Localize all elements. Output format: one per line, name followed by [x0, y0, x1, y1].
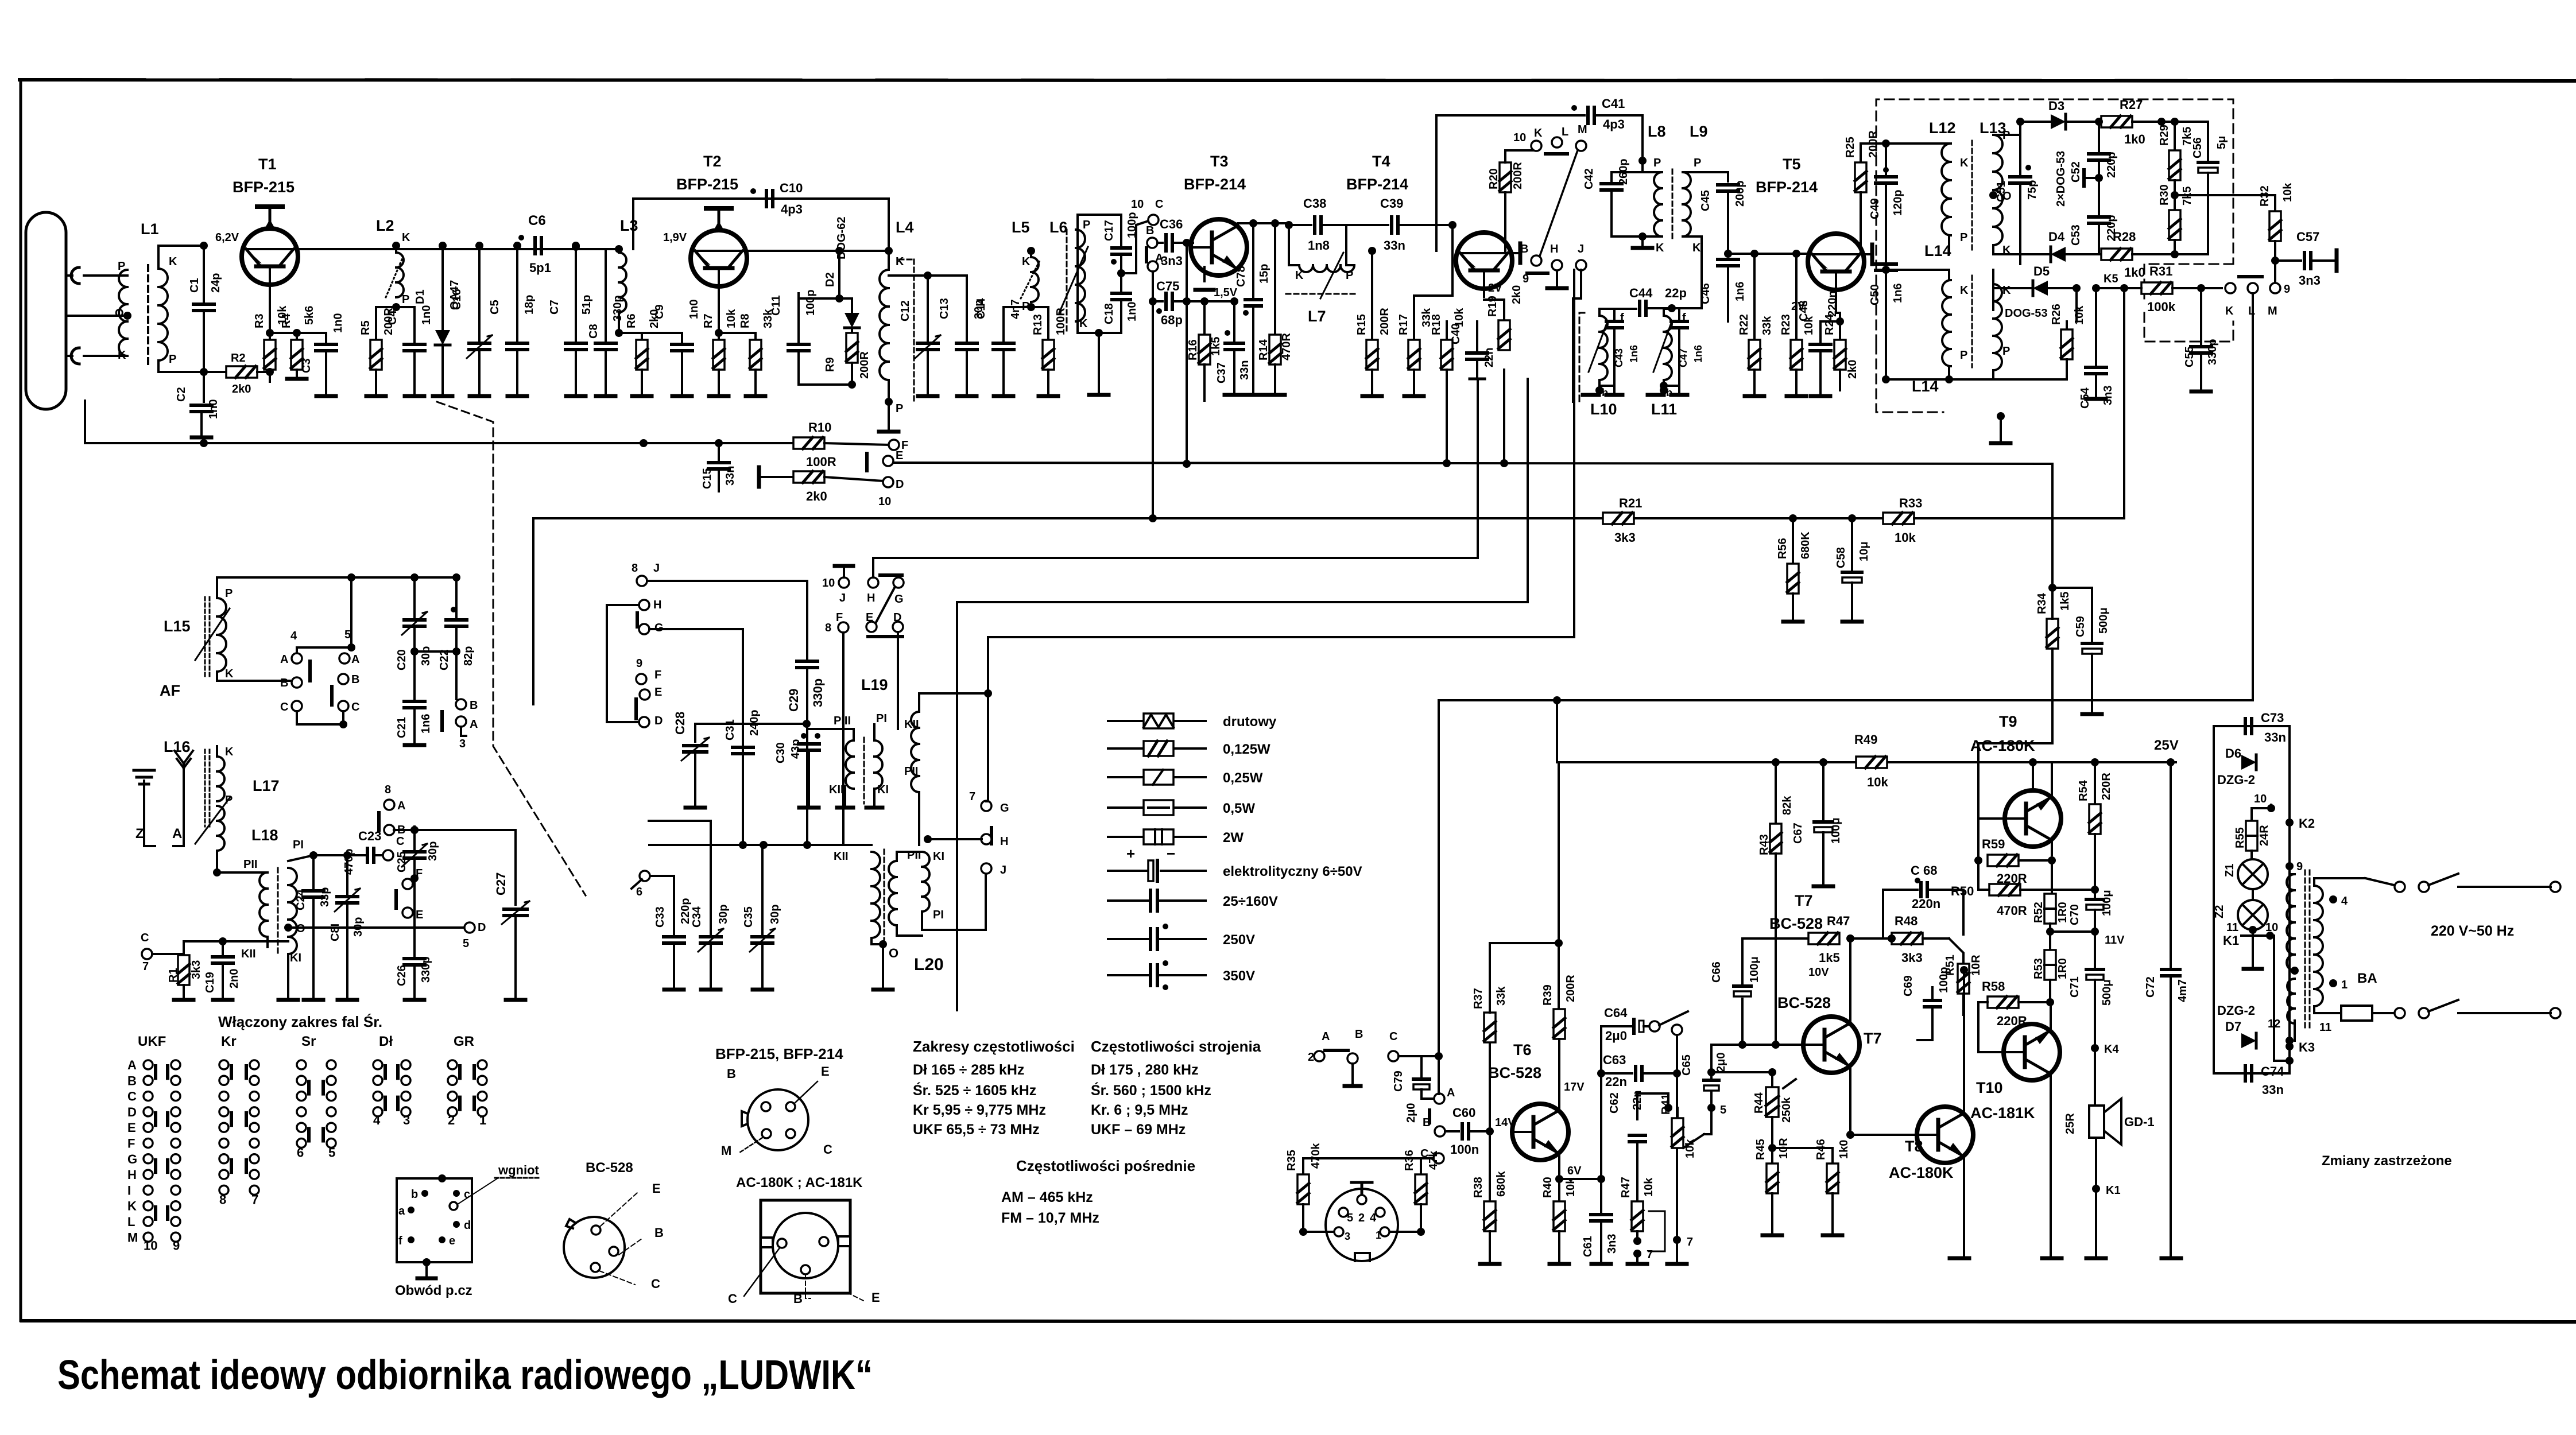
- resistor R1: [141, 932, 288, 1000]
- svg-text:Śr. 560 ; 1500 kHz: Śr. 560 ; 1500 kHz: [1091, 1081, 1211, 1099]
- capacitor C20 trimmer: [396, 577, 432, 670]
- svg-text:R29: R29: [2158, 125, 2171, 146]
- svg-text:7: 7: [142, 960, 149, 973]
- svg-text:4: 4: [373, 1113, 381, 1127]
- resistor R51: [1923, 938, 1982, 1015]
- svg-text:C24: C24: [295, 889, 307, 910]
- svg-text:R16: R16: [1187, 339, 1199, 360]
- svg-text:5: 5: [328, 1146, 335, 1160]
- svg-text:L11: L11: [1651, 401, 1677, 418]
- resistor R39: [1541, 975, 1577, 1104]
- svg-text:C45: C45: [1699, 190, 1712, 211]
- svg-text:0,125W: 0,125W: [1223, 742, 1270, 757]
- resistor R48: [1850, 914, 1923, 965]
- svg-text:C8: C8: [587, 324, 600, 339]
- svg-text:7: 7: [969, 790, 975, 803]
- capacitor C69: [1902, 967, 1950, 1040]
- svg-text:11: 11: [2319, 1021, 2331, 1034]
- capacitor C37: [1215, 301, 1251, 395]
- svg-text:1n0: 1n0: [1126, 302, 1138, 321]
- resistor R43: [1758, 762, 1793, 1045]
- capacitor C63: [1597, 1053, 1681, 1179]
- ground node under L14: [1991, 412, 2011, 443]
- svg-text:4p3: 4p3: [1603, 117, 1625, 131]
- terminal B H J row: [1520, 243, 1586, 288]
- svg-text:M: M: [127, 1230, 138, 1244]
- resistor R46: [1772, 1139, 1850, 1235]
- svg-text:T2: T2: [703, 153, 722, 170]
- svg-text:R30: R30: [2158, 184, 2171, 205]
- svg-text:R39: R39: [1541, 984, 1554, 1006]
- svg-text:C25: C25: [396, 851, 408, 872]
- resistor R30: [2158, 184, 2194, 254]
- coil L15: [164, 577, 234, 680]
- svg-text:22n: 22n: [1483, 348, 1496, 367]
- resistor R6: [615, 309, 682, 396]
- svg-text:+: +: [1126, 845, 1135, 862]
- capacitor C9: [653, 300, 700, 396]
- svg-text:8: 8: [632, 562, 638, 575]
- svg-text:5p1: 5p1: [529, 261, 551, 275]
- svg-text:120p: 120p: [1892, 189, 1904, 216]
- svg-text:B: B: [351, 673, 359, 686]
- svg-text:G: G: [127, 1152, 137, 1166]
- resistor R2: [226, 352, 274, 395]
- svg-text:D2: D2: [824, 272, 836, 287]
- svg-text:b: b: [1666, 387, 1672, 398]
- svg-text:2μ0: 2μ0: [1605, 1029, 1627, 1043]
- svg-text:2μ0: 2μ0: [1405, 1103, 1417, 1123]
- svg-text:43p: 43p: [789, 739, 802, 759]
- svg-text:D4: D4: [2048, 230, 2065, 244]
- IF transformer L19: [809, 676, 889, 808]
- svg-text:R38: R38: [1472, 1177, 1485, 1198]
- svg-text:C33: C33: [654, 906, 667, 928]
- svg-text:2μ0: 2μ0: [1715, 1053, 1727, 1072]
- svg-text:BFP-215: BFP-215: [676, 176, 738, 193]
- svg-text:R40: R40: [1541, 1177, 1554, 1198]
- svg-text:D: D: [654, 715, 663, 727]
- svg-text:30p: 30p: [427, 841, 439, 861]
- svg-text:3: 3: [459, 738, 466, 750]
- svg-text:B: B: [1146, 224, 1154, 237]
- svg-text:L14: L14: [1924, 242, 1951, 259]
- svg-text:R13: R13: [1032, 314, 1044, 335]
- svg-text:1n6: 1n6: [1892, 284, 1904, 303]
- svg-text:3: 3: [403, 1113, 410, 1127]
- svg-text:200R: 200R: [1512, 162, 1524, 189]
- svg-text:R5: R5: [359, 320, 372, 335]
- svg-text:C: C: [728, 1291, 737, 1306]
- svg-text:C7: C7: [548, 300, 561, 315]
- svg-text:500μ: 500μ: [2097, 607, 2110, 634]
- diode D2 DOG-62: [824, 217, 859, 333]
- resistor R53 wirewound: [2032, 932, 2069, 1006]
- svg-text:1n0: 1n0: [420, 305, 433, 325]
- resistor R58: [1978, 979, 2050, 1052]
- svg-text:E: E: [866, 611, 873, 624]
- terminal D 5: [463, 921, 486, 950]
- transistor T10: [1970, 1002, 2062, 1258]
- note Zmiany zastrzezone: [2322, 1153, 2452, 1169]
- capacitor C21: [396, 651, 432, 745]
- resistor R59: [1982, 837, 2056, 886]
- svg-text:KI: KI: [933, 850, 944, 863]
- svg-text:R8: R8: [739, 313, 752, 328]
- svg-text:11: 11: [2226, 921, 2238, 934]
- capacitor C67 electrolytic: [1792, 762, 1842, 886]
- wire C11-D2 top: [799, 247, 852, 302]
- wire J to C29: [647, 581, 807, 659]
- transistor T7: [1769, 892, 1882, 1079]
- resistor R34: [2036, 584, 2071, 743]
- svg-text:A: A: [1447, 1087, 1455, 1099]
- capacitor C15: [701, 443, 737, 491]
- svg-text:C63: C63: [1603, 1053, 1626, 1067]
- diode D1 OA47: [414, 242, 461, 396]
- wire D to C34: [649, 820, 711, 822]
- svg-text:C15: C15: [701, 468, 714, 489]
- svg-text:K: K: [896, 255, 904, 268]
- svg-text:82k: 82k: [1781, 796, 1793, 815]
- svg-text:33k: 33k: [1761, 316, 1773, 335]
- input terminals A B C: [1308, 1028, 1439, 1086]
- capacitor C74: [2245, 1064, 2284, 1097]
- svg-text:Sr: Sr: [301, 1034, 316, 1049]
- svg-text:R4: R4: [280, 313, 293, 328]
- svg-text:P: P: [1653, 157, 1661, 169]
- svg-text:10: 10: [878, 495, 891, 508]
- svg-text:M: M: [2268, 305, 2277, 317]
- svg-text:b: b: [411, 1188, 418, 1201]
- svg-text:C59: C59: [2074, 616, 2087, 637]
- svg-text:7: 7: [1687, 1236, 1693, 1248]
- resistor R11: [759, 466, 904, 508]
- transformer L4: [879, 219, 914, 432]
- svg-text:C75: C75: [1156, 279, 1179, 293]
- svg-text:6: 6: [297, 1146, 304, 1160]
- svg-text:f: f: [398, 1235, 402, 1247]
- capacitor C3: [270, 313, 344, 396]
- svg-text:Kr 5,95 ÷ 9,775 MHz: Kr 5,95 ÷ 9,775 MHz: [913, 1102, 1046, 1118]
- capacitor C41 feedback: [1436, 96, 1643, 251]
- svg-text:2k0: 2k0: [1510, 285, 1523, 304]
- svg-text:68p: 68p: [1161, 313, 1183, 327]
- svg-text:1n6: 1n6: [420, 714, 432, 734]
- svg-text:R48: R48: [1895, 914, 1918, 928]
- svg-text:E: E: [871, 1290, 880, 1305]
- svg-text:15p: 15p: [1258, 264, 1270, 284]
- svg-text:3n3: 3n3: [1161, 254, 1183, 268]
- svg-text:K: K: [2225, 305, 2234, 317]
- osc feed wire from J: [1573, 270, 1581, 402]
- svg-text:A: A: [470, 718, 478, 731]
- svg-text:L19: L19: [861, 676, 888, 693]
- svg-text:d: d: [464, 1219, 471, 1232]
- svg-text:2×DOG-53: 2×DOG-53: [2055, 151, 2067, 207]
- svg-text:R53: R53: [2032, 958, 2045, 979]
- svg-text:C61: C61: [1582, 1236, 1594, 1257]
- svg-text:R9: R9: [824, 357, 836, 372]
- capacitor C49: [1869, 139, 1904, 224]
- svg-text:T4: T4: [1372, 153, 1390, 170]
- svg-text:C50: C50: [1869, 284, 1881, 305]
- IF transformer L12 L13: [1861, 119, 2020, 257]
- capacitor C66 electrolytic: [1710, 938, 1808, 1045]
- svg-text:680K: 680K: [1799, 532, 1812, 559]
- svg-text:B: B: [1355, 1028, 1363, 1041]
- svg-text:P: P: [896, 402, 903, 415]
- module Obwod p.cz: [395, 1163, 540, 1298]
- svg-text:H: H: [1550, 243, 1558, 255]
- svg-text:E: E: [654, 686, 662, 699]
- svg-text:B: B: [654, 1225, 664, 1240]
- capacitor C54: [2079, 284, 2114, 409]
- svg-text:B: B: [1520, 243, 1528, 255]
- svg-text:H: H: [127, 1168, 137, 1182]
- svg-text:6: 6: [636, 886, 642, 898]
- svg-text:K: K: [225, 668, 234, 680]
- capacitor C25 trimmer: [396, 827, 439, 882]
- transistor T6: [1488, 1041, 1585, 1166]
- svg-text:C2: C2: [175, 387, 188, 402]
- svg-text:30p: 30p: [352, 917, 365, 937]
- bus AVC main: [533, 518, 1603, 704]
- svg-text:100μ: 100μ: [1830, 817, 1842, 844]
- capacitor C55: [2183, 288, 2219, 391]
- terminal 10 K L switch: [1513, 126, 1568, 154]
- svg-text:470p: 470p: [343, 848, 355, 875]
- svg-text:PI: PI: [293, 839, 304, 851]
- svg-text:C13: C13: [938, 298, 951, 319]
- svg-text:R32: R32: [2259, 185, 2271, 207]
- fm output line to audio: [1439, 293, 2253, 1089]
- pinout BC-528: [564, 1160, 664, 1291]
- svg-text:A: A: [127, 1058, 137, 1072]
- svg-text:C10: C10: [780, 181, 803, 195]
- svg-text:D7: D7: [2225, 1019, 2241, 1034]
- svg-text:Włączony zakres fal Śr.: Włączony zakres fal Śr.: [218, 1013, 382, 1030]
- resistor R19: [1484, 285, 1523, 350]
- svg-text:M: M: [1578, 123, 1587, 136]
- svg-text:C34: C34: [691, 906, 703, 928]
- svg-text:C48: C48: [1798, 300, 1810, 321]
- potentiometer R41: [1660, 1093, 1711, 1158]
- capacitor C45 series: [1699, 172, 1746, 258]
- svg-text:E: E: [821, 1064, 830, 1079]
- svg-text:1n0: 1n0: [332, 313, 344, 333]
- legend resistor 2W: [1108, 829, 1244, 846]
- svg-text:0,25W: 0,25W: [1223, 770, 1263, 786]
- svg-text:R15: R15: [1355, 314, 1368, 335]
- svg-text:1n6: 1n6: [1628, 345, 1640, 363]
- resistor R38: [1472, 1137, 1508, 1264]
- resistor R33: [1883, 288, 2124, 545]
- switch contacts 8 A B: [379, 784, 419, 836]
- svg-text:K: K: [1079, 317, 1088, 330]
- svg-text:R27: R27: [2120, 98, 2143, 112]
- terminal M: [1576, 123, 1587, 151]
- capacitor C27 variable: [415, 830, 529, 1000]
- svg-text:330p: 330p: [2206, 339, 2219, 365]
- svg-text:C17: C17: [1103, 220, 1115, 241]
- lamp Z2: [2213, 889, 2268, 930]
- svg-text:C: C: [141, 932, 149, 944]
- svg-text:10R: 10R: [1970, 955, 1982, 976]
- svg-text:C66: C66: [1710, 961, 1723, 983]
- svg-text:2W: 2W: [1223, 830, 1244, 846]
- svg-text:C37: C37: [1215, 362, 1228, 383]
- svg-text:4n7: 4n7: [1009, 300, 1022, 319]
- svg-text:Zmiany zastrzeżone: Zmiany zastrzeżone: [2322, 1153, 2452, 1169]
- svg-text:Śr. 525 ÷ 1605 kHz: Śr. 525 ÷ 1605 kHz: [913, 1081, 1036, 1099]
- svg-text:1: 1: [1376, 1230, 1381, 1241]
- svg-text:K: K: [1022, 255, 1031, 268]
- resistor R49: [1854, 732, 1888, 789]
- emitter T2 down: [715, 296, 723, 337]
- capacitor C52: [2070, 118, 2118, 186]
- svg-text:BFP-214: BFP-214: [1756, 179, 1818, 196]
- switch matrix table: [138, 1013, 474, 1049]
- svg-text:Z: Z: [135, 826, 144, 841]
- svg-text:R17: R17: [1397, 314, 1410, 335]
- svg-text:100μ: 100μ: [1748, 956, 1761, 983]
- svg-text:T5: T5: [1783, 156, 1801, 173]
- capacitor C8: [587, 249, 624, 396]
- svg-text:100μ: 100μ: [2101, 890, 2113, 916]
- svg-text:K: K: [127, 1199, 137, 1213]
- svg-text:D5: D5: [2033, 264, 2050, 278]
- resistor R23: [1780, 254, 1815, 396]
- svg-text:FM – 10,7 MHz: FM – 10,7 MHz: [1001, 1210, 1099, 1226]
- capacitor C23: [358, 829, 404, 862]
- legend capacitor 25-160V: [1108, 890, 1278, 911]
- svg-text:R46: R46: [1815, 1139, 1827, 1160]
- svg-text:1k5: 1k5: [1210, 337, 1222, 356]
- coil L6 box: [1049, 215, 1121, 395]
- coil L3: [615, 217, 638, 333]
- wire E bus to L20: [649, 841, 871, 849]
- svg-text:8: 8: [825, 622, 831, 634]
- svg-text:I: I: [127, 1183, 131, 1197]
- svg-text:C72: C72: [2144, 976, 2157, 998]
- wire L15 top bus: [217, 573, 460, 581]
- svg-text:L6: L6: [1049, 219, 1068, 236]
- capacitor C53: [2070, 178, 2118, 252]
- switch contacts 4 5 A B C: [280, 577, 359, 728]
- emitter wire T1 down: [266, 293, 274, 337]
- svg-text:P: P: [1694, 157, 1701, 169]
- switch contacts 8J H G 9F E D left column: [607, 562, 664, 727]
- svg-text:KII: KII: [241, 948, 256, 960]
- svg-text:L: L: [1562, 126, 1568, 138]
- svg-text:P: P: [225, 587, 233, 600]
- svg-text:L10: L10: [1590, 401, 1617, 418]
- svg-text:C58: C58: [1835, 547, 1847, 568]
- transformer L8 L9: [1612, 123, 1728, 270]
- svg-text:E: E: [652, 1181, 661, 1196]
- svg-text:10: 10: [1513, 131, 1526, 144]
- T6 emitter node 6V: [1555, 1159, 1601, 1183]
- svg-text:C20: C20: [396, 649, 408, 670]
- resistor R17: [1397, 252, 1452, 396]
- svg-text:UKF: UKF: [138, 1034, 166, 1049]
- capacitor C31: [724, 709, 761, 845]
- resistor R29: [2158, 118, 2194, 199]
- capacitor C42: [1583, 158, 1643, 236]
- svg-text:9: 9: [2296, 860, 2303, 873]
- svg-text:drutowy: drutowy: [1223, 714, 1277, 730]
- svg-text:350V: 350V: [1223, 968, 1255, 984]
- capacitor C14: [975, 297, 1022, 396]
- transistor T4: [1346, 153, 1520, 297]
- svg-text:AF: AF: [160, 682, 180, 699]
- svg-text:K: K: [1960, 157, 1969, 169]
- bus AGC R10: [85, 401, 792, 447]
- title text: [57, 1352, 873, 1398]
- svg-text:17V: 17V: [1564, 1081, 1585, 1093]
- svg-text:8: 8: [385, 784, 391, 796]
- wire rail T2-L4: [747, 250, 889, 252]
- svg-text:C29: C29: [787, 689, 801, 712]
- resistor R3: [253, 305, 289, 382]
- svg-text:100p: 100p: [1938, 967, 1950, 993]
- wire col7 down: [1667, 1035, 1693, 1264]
- capacitor C80 trimmer: [329, 848, 365, 1000]
- terminals K L: [2225, 277, 2262, 317]
- bus band3: [873, 379, 1478, 558]
- svg-text:KII: KII: [834, 850, 849, 863]
- svg-text:240p: 240p: [748, 709, 761, 736]
- svg-text:C42: C42: [1583, 168, 1595, 189]
- svg-text:1k0: 1k0: [2124, 265, 2145, 280]
- svg-text:E: E: [896, 449, 903, 462]
- svg-text:25÷160V: 25÷160V: [1223, 894, 1278, 909]
- svg-text:R20: R20: [1488, 168, 1500, 189]
- svg-text:4m7: 4m7: [2176, 979, 2189, 1002]
- svg-text:L17: L17: [253, 777, 280, 794]
- capacitor C62: [1608, 1091, 1668, 1201]
- svg-text:C: C: [651, 1277, 660, 1291]
- svg-text:3k3: 3k3: [1614, 530, 1636, 545]
- svg-text:7: 7: [1647, 1248, 1653, 1261]
- svg-text:B: B: [727, 1066, 736, 1081]
- svg-text:R10: R10: [808, 420, 831, 435]
- resistor R18: [1430, 308, 1466, 379]
- svg-text:P: P: [1083, 219, 1090, 231]
- svg-text:wgniot: wgniot: [498, 1163, 540, 1177]
- svg-text:500μ: 500μ: [2101, 979, 2113, 1006]
- capacitor C4: [386, 305, 433, 396]
- svg-text:R7: R7: [702, 313, 715, 328]
- svg-text:10: 10: [1131, 198, 1144, 211]
- svg-text:C64: C64: [1604, 1006, 1628, 1020]
- capacitor C59 electrolytic: [2052, 588, 2110, 714]
- svg-text:6,2V: 6,2V: [215, 231, 239, 244]
- svg-text:C18: C18: [1103, 303, 1115, 324]
- svg-text:C: C: [1389, 1030, 1397, 1043]
- svg-text:AC-180K ; AC-181K: AC-180K ; AC-181K: [736, 1175, 863, 1190]
- wire rail T1-L2: [298, 248, 619, 250]
- svg-text:100R: 100R: [806, 455, 836, 469]
- legend resistor 0,25W: [1108, 770, 1263, 786]
- pinout AC-180K AC-181K: [728, 1175, 880, 1306]
- resistor R16: [1187, 301, 1222, 401]
- svg-text:C69: C69: [1902, 975, 1915, 996]
- svg-text:GR: GR: [454, 1034, 474, 1049]
- transistor T8: [1889, 966, 1973, 1258]
- svg-text:330p: 330p: [420, 956, 432, 983]
